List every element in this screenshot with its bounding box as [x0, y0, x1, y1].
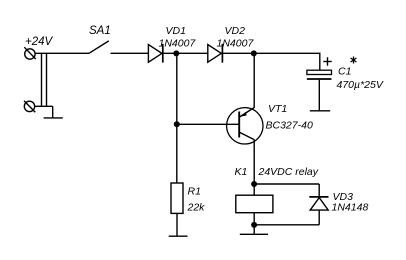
wire relay coil bottom	[253, 213, 255, 225]
switch SA1	[89, 41, 109, 53]
svg-text:470µ*25V: 470µ*25V	[337, 79, 384, 91]
capacitor C1	[307, 70, 332, 110]
wire connector line 1	[41, 53, 43, 106]
capacitor C1 plus sign	[323, 57, 331, 65]
diode VD1	[148, 44, 162, 63]
svg-text:+24V: +24V	[25, 36, 54, 48]
ground (relay)	[240, 225, 268, 234]
ground (C1)	[310, 110, 330, 112]
node junction collector/relay/VD3 top	[251, 181, 257, 187]
wire base	[177, 123, 239, 125]
wire rail corner down to C1	[319, 53, 321, 71]
label asterisk (C1)	[351, 57, 357, 64]
diode VD2	[208, 44, 223, 63]
svg-text:VD1: VD1	[166, 25, 186, 37]
svg-text:24VDC relay: 24VDC relay	[258, 166, 319, 178]
wire top terminal to switch	[35, 52, 89, 54]
diode VD3 (flyback)	[309, 184, 328, 225]
wire rail dot down to VT1 emitter	[253, 53, 255, 107]
svg-text:VT1: VT1	[268, 103, 287, 115]
svg-text:1N4007: 1N4007	[159, 37, 197, 49]
svg-text:1N4148: 1N4148	[332, 202, 369, 214]
wire switch to VD1	[111, 52, 149, 54]
svg-text:C1: C1	[338, 65, 351, 77]
svg-text:VD2: VD2	[225, 25, 246, 37]
svg-text:22k: 22k	[187, 201, 206, 213]
transistor VT1 (PNP)	[227, 107, 263, 144]
svg-text:BC327-40: BC327-40	[266, 120, 313, 132]
wire connector line 2	[46, 53, 48, 106]
node junction VD1/R1	[173, 50, 179, 56]
svg-text:SA1: SA1	[89, 25, 111, 37]
wire relay bottom to VD3	[254, 224, 319, 226]
node junction VD2/VT1 emitter	[251, 50, 257, 56]
wire R1 to ground	[176, 213, 178, 236]
wire left branch down to R1	[176, 53, 178, 183]
ground (R1)	[169, 235, 188, 237]
terminal bottom (input return)	[24, 101, 35, 112]
wire dot to relay coil	[253, 184, 255, 195]
svg-text:K1: K1	[235, 166, 248, 178]
wire VD1 to VD2	[163, 52, 208, 54]
ground (input)	[44, 106, 63, 118]
relay K1 coil	[236, 195, 273, 213]
node junction relay bottom/VD3 bottom	[251, 222, 257, 228]
node junction base/R1	[174, 121, 180, 127]
svg-text:R1: R1	[188, 186, 201, 198]
wire VD2 to C1 corner	[222, 52, 319, 54]
resistor R1	[171, 183, 183, 213]
terminal top (+24V input)	[24, 47, 35, 59]
wire VT1 collector down to relay	[253, 140, 255, 184]
wire relay top to VD3	[254, 183, 319, 185]
wire bottom terminal	[35, 105, 53, 107]
